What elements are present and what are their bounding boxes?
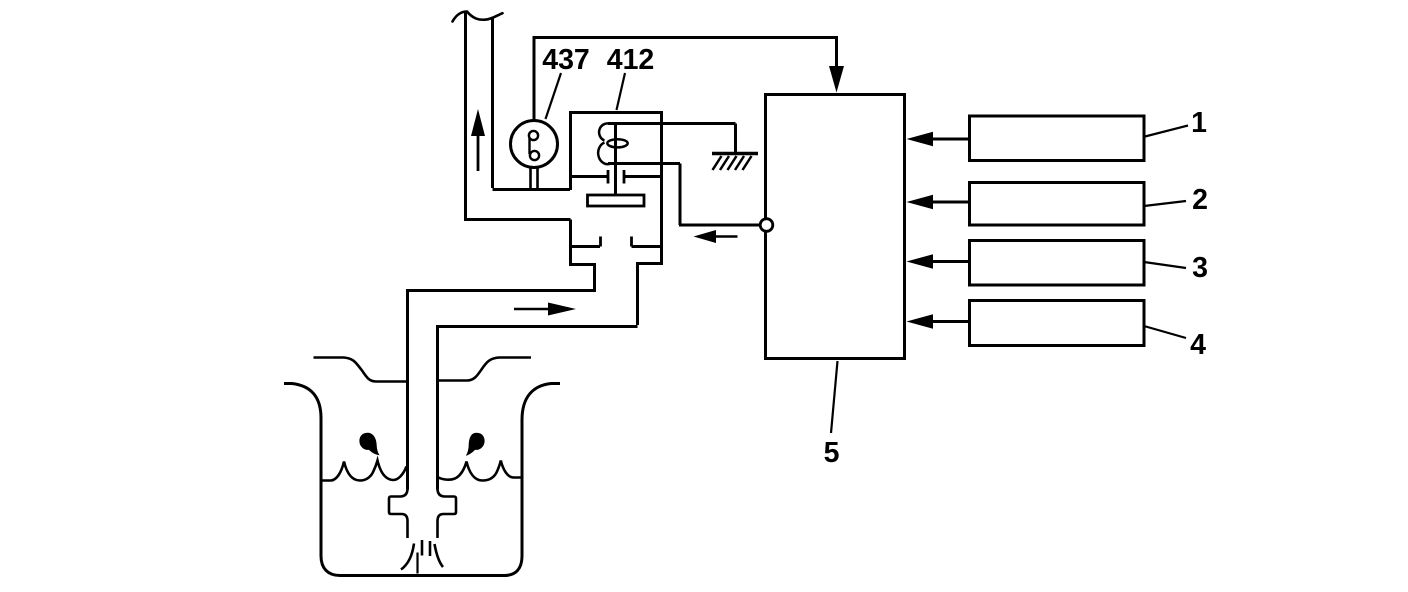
- valve lower body left wall: [571, 220, 595, 291]
- solenoid coil bump upper: [599, 123, 611, 140]
- leader 412: [617, 73, 626, 110]
- filler nozzle left wall: [389, 489, 408, 539]
- leader 1: [1145, 126, 1188, 137]
- filler nozzle right wall: [438, 489, 457, 539]
- leader 5: [831, 361, 838, 433]
- input box 4: [970, 301, 1145, 346]
- flow arrow right (tank to valve): [514, 308, 549, 311]
- tank inner shoulder left: [314, 358, 407, 382]
- leader 3: [1144, 262, 1186, 268]
- svg-text:412: 412: [607, 44, 655, 76]
- arrow input 2: [932, 201, 970, 204]
- sensor 437 stem left: [529, 168, 532, 190]
- wire channel bottom wall (vent to valve lower body): [464, 218, 571, 221]
- ground hatch 3: [728, 156, 737, 170]
- valve seat upper right: [625, 175, 662, 178]
- valve lower port tick left: [599, 237, 602, 247]
- valve lower body right wall: [638, 264, 662, 326]
- vent pipe break squiggle: [453, 12, 503, 22]
- wire vent pipe left wall: [464, 12, 467, 218]
- node on module left edge: [760, 219, 773, 232]
- spray center stream: [416, 553, 418, 574]
- wire top run to control module: [533, 36, 837, 39]
- valve lower port tick right: [630, 237, 633, 247]
- valve stem: [614, 124, 617, 195]
- valve seat tick right: [623, 170, 626, 184]
- valve 412 body outline: [571, 113, 662, 266]
- svg-text:2: 2: [1192, 184, 1208, 216]
- svg-text:437: 437: [542, 44, 590, 76]
- ground hatch 1: [713, 156, 722, 170]
- svg-text:4: 4: [1190, 329, 1206, 361]
- spray dash inner right: [429, 541, 432, 556]
- pipe bottom wall to tank: [438, 327, 638, 490]
- valve disc: [588, 195, 645, 206]
- input box 3: [970, 241, 1145, 286]
- control module 5 box: [766, 95, 905, 359]
- leader 4: [1144, 326, 1186, 338]
- wire vent pipe right wall: [491, 19, 494, 189]
- tank inner shoulder right: [439, 358, 532, 381]
- arrow input 4: [932, 320, 970, 323]
- sensor 437 inner link: [528, 138, 530, 155]
- spray arc outer right: [435, 544, 444, 567]
- ground hatch 2: [720, 156, 729, 170]
- arrow input 3: [932, 260, 970, 263]
- flow arrow left (into valve wire): [714, 235, 738, 238]
- wire valve to module node: [608, 164, 760, 226]
- fuel droplet left: [359, 433, 379, 456]
- ground bar: [712, 152, 758, 155]
- wire coil to ground: [608, 124, 736, 153]
- ground hatch 4: [735, 156, 744, 170]
- valve seat upper left: [571, 175, 608, 178]
- valve lower seat left: [571, 245, 601, 248]
- wire channel top wall (vent to valve): [493, 188, 571, 191]
- fuel tank outer shell: [284, 384, 560, 576]
- sensor 437 inner contact top: [529, 131, 538, 140]
- svg-text:5: 5: [824, 437, 840, 469]
- svg-text:3: 3: [1192, 252, 1208, 284]
- flow arrow up (vent): [477, 134, 480, 171]
- arrow input 1: [932, 138, 970, 141]
- sensor 437 inner contact bottom: [530, 151, 539, 160]
- ground hatch 5: [743, 156, 752, 170]
- valve lower seat right: [632, 245, 662, 248]
- sensor 437 body circle: [511, 121, 558, 168]
- arrowhead into module top: [829, 66, 844, 93]
- solenoid coil loop: [607, 139, 627, 147]
- svg-text:1: 1: [1191, 107, 1207, 139]
- sensor 437 stem right: [536, 167, 539, 190]
- spray dash inner left: [421, 540, 424, 556]
- valve seat tick left: [607, 170, 610, 184]
- fuel surface wave right: [439, 461, 522, 481]
- solenoid coil bump lower: [598, 143, 611, 165]
- leader 2: [1144, 201, 1186, 206]
- fuel droplet right: [466, 433, 485, 456]
- input box 1: [970, 116, 1145, 161]
- leader 437: [546, 73, 562, 119]
- spray arc outer left: [401, 544, 414, 570]
- sensor 437 wire up: [533, 36, 536, 121]
- input box 2: [970, 183, 1145, 226]
- fuel surface wave left: [321, 461, 407, 481]
- pipe top wall to tank: [408, 291, 597, 490]
- wire drop into control module: [835, 36, 838, 70]
